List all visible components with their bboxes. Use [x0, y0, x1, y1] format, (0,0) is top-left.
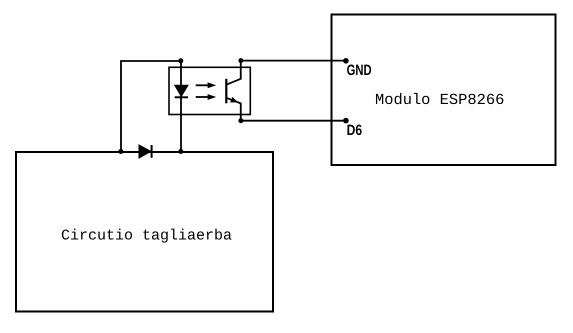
- junction dot B (right, on box edge): [178, 149, 183, 154]
- junction dot emitter: [238, 118, 243, 123]
- optocoupler U1 body: [169, 67, 250, 114]
- diode D1: [139, 145, 152, 158]
- light arrow 1: [196, 82, 217, 88]
- junction dot collector: [238, 58, 243, 63]
- pin dot D6: [343, 118, 349, 124]
- svg-text:GND: GND: [347, 62, 372, 79]
- phototransistor Q1: [226, 61, 240, 121]
- wire left vertical + top horizontal: [121, 61, 181, 152]
- junction dot A (left, on box edge): [118, 149, 123, 154]
- block Modulo ESP8266: [332, 15, 556, 166]
- svg-text:Modulo ESP8266: Modulo ESP8266: [375, 91, 504, 109]
- junction dot LED anode top: [178, 58, 183, 63]
- svg-text:D6: D6: [347, 122, 363, 139]
- pin dot GND: [343, 58, 349, 64]
- wire emitter to D6: [241, 120, 346, 122]
- block Circutio tagliaerba: [16, 152, 273, 312]
- LED D2 (optocoupler emitter diode): [175, 85, 188, 97]
- wire LED anode/cathode vertical: [180, 61, 182, 152]
- wire collector to GND: [241, 60, 346, 62]
- light arrow 2: [196, 94, 217, 100]
- svg-text:Circutio tagliaerba: Circutio tagliaerba: [61, 228, 232, 245]
